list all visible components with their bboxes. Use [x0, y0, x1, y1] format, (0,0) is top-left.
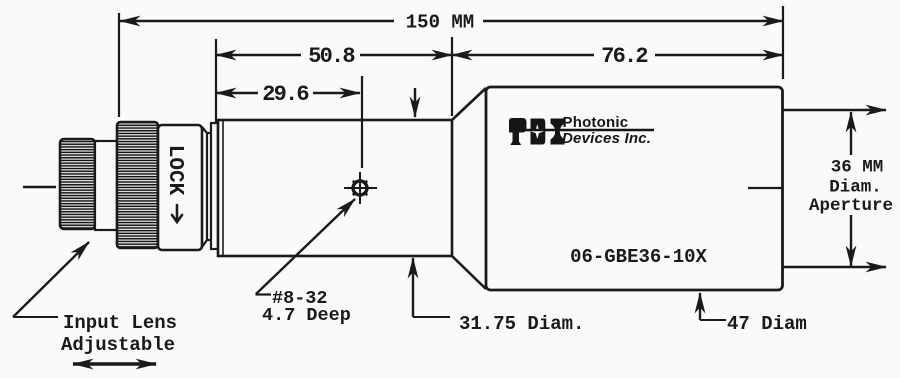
- input axis line: [23, 186, 56, 188]
- svg-text:36 MM: 36 MM: [831, 158, 884, 178]
- svg-text:06-GBE36-10X: 06-GBE36-10X: [570, 246, 707, 268]
- model number text: [570, 246, 707, 268]
- extension line at x=216 (50.8 / 29.6): [215, 39, 217, 122]
- svg-text:29.6: 29.6: [262, 82, 308, 107]
- dimension text 50.8: [308, 44, 355, 69]
- aperture top line: [783, 109, 886, 111]
- lock barrel: [158, 125, 202, 250]
- text Input Lens: [63, 312, 177, 334]
- thin ring before main barrel: [211, 123, 218, 249]
- logo ray line: [524, 129, 654, 132]
- dimension 76.2 line right segment: [655, 54, 783, 56]
- dimension text 29.6: [262, 82, 308, 107]
- svg-text:Photonic: Photonic: [563, 114, 629, 131]
- output housing box (47 diam): [486, 87, 783, 290]
- extension line at x=362 (29.6 down to crosshair): [361, 76, 363, 168]
- dimension 150 MM line right segment: [483, 20, 783, 22]
- aperture bottom line: [783, 266, 886, 268]
- text 36 MM: [831, 158, 884, 178]
- svg-text:47 Diam: 47 Diam: [727, 313, 807, 335]
- dimension text 150 MM: [406, 12, 474, 34]
- leader for 47 Diam: [700, 293, 726, 320]
- logo text Devices Inc.: [562, 130, 651, 147]
- svg-text:150 MM: 150 MM: [406, 12, 474, 34]
- dimension 150 MM line left segment: [120, 20, 394, 22]
- svg-text:Adjustable: Adjustable: [61, 334, 175, 356]
- knurled ring 2: [117, 122, 158, 248]
- main barrel (31.75 diam): [218, 120, 452, 256]
- double arrow adjustable: [73, 362, 156, 365]
- PDI logo letter I (hourglass): [551, 119, 565, 145]
- text Diam.: [829, 178, 882, 198]
- dimension text 76.2: [601, 44, 647, 69]
- svg-text:Input Lens: Input Lens: [63, 312, 177, 334]
- dimension 50.8 line left segment: [216, 54, 301, 56]
- leader for #8-32: [256, 199, 356, 295]
- dimension 29.6 line right segment: [313, 92, 360, 94]
- svg-text:LOCK: LOCK: [163, 145, 186, 196]
- text 4.7 Deep: [262, 305, 351, 326]
- svg-text:31.75 Diam.: 31.75 Diam.: [459, 313, 584, 335]
- crosshair target mark: [344, 172, 377, 204]
- extension line middle (50.8 / 76.2): [451, 37, 453, 116]
- svg-text:76.2: 76.2: [601, 44, 647, 69]
- leader for 31.75 Diam: [413, 258, 450, 317]
- PDI logo letter D with star cutout: [531, 119, 546, 145]
- center mark on housing right: [748, 187, 783, 189]
- knurled ring 1: [60, 139, 95, 229]
- neck between rings: [95, 141, 117, 230]
- extension line right (150 MM / 76.2): [782, 6, 784, 79]
- dimension 76.2 line left segment: [452, 54, 594, 56]
- dimension 29.6 line left segment: [216, 92, 258, 94]
- lock label rotated: [163, 145, 186, 196]
- neck groove after lock barrel: [202, 127, 212, 247]
- text Aperture: [809, 196, 893, 216]
- text 47 Diam: [727, 313, 807, 335]
- svg-text:Aperture: Aperture: [809, 196, 893, 216]
- extension line left (150 MM): [118, 13, 120, 117]
- PDI logo letter P: [509, 118, 527, 145]
- svg-text:Devices Inc.: Devices Inc.: [562, 130, 651, 147]
- lock arrow pointing down: [172, 205, 182, 222]
- svg-text:50.8: 50.8: [308, 44, 355, 69]
- svg-text:4.7 Deep: 4.7 Deep: [262, 305, 351, 326]
- text #8-32: [272, 288, 328, 309]
- dimension 50.8 line right segment: [360, 54, 452, 56]
- text Adjustable: [61, 334, 175, 356]
- svg-text:Diam.: Diam.: [829, 178, 882, 198]
- 36 MM dim arrow up: [850, 112, 852, 155]
- 36 MM dim arrow down: [850, 215, 852, 266]
- down arrow to barrel top (31.75 reference): [414, 88, 416, 117]
- taper to output housing: [452, 88, 486, 289]
- leader for Input Lens: [13, 242, 89, 317]
- text 31.75 Diam.: [459, 313, 584, 335]
- logo text Photonic: [563, 114, 629, 131]
